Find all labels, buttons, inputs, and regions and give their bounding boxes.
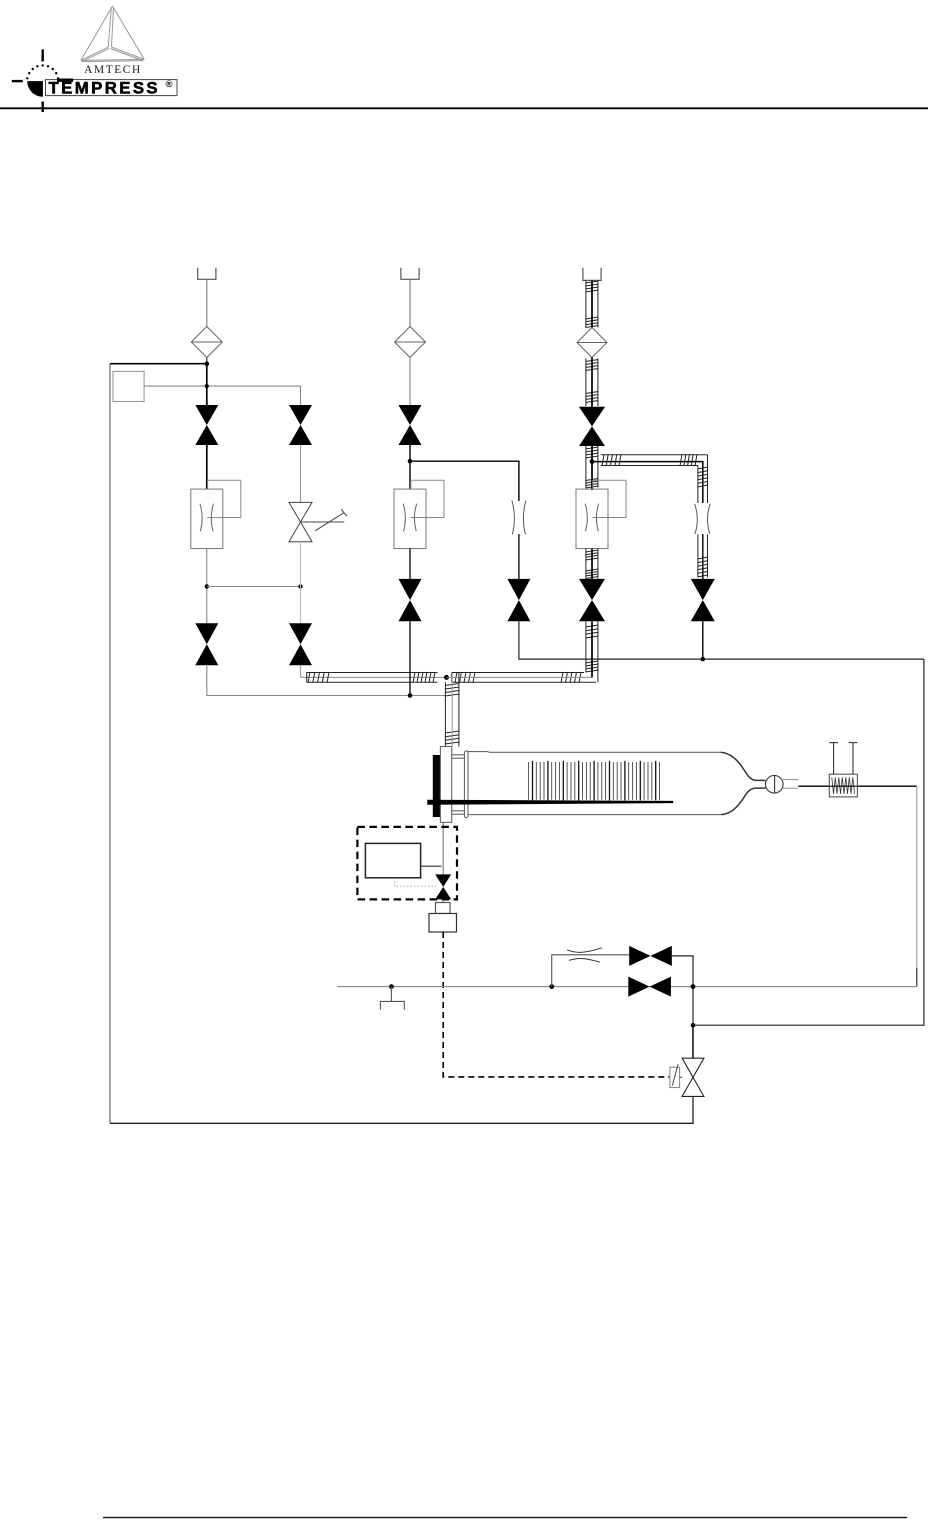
flex hose FH1 [585, 280, 598, 327]
furnace tube body [468, 752, 721, 815]
TEMPRESS wordmark box [46, 78, 178, 97]
restrictor R1 [512, 501, 526, 535]
valve V6 [579, 407, 605, 427]
node E [408, 693, 413, 698]
filter F3 [577, 328, 607, 358]
wire box B1 to line 2 [144, 386, 300, 405]
control signal dotted wire [395, 878, 437, 887]
wire V7 to node H [702, 621, 704, 659]
tube neck curves [721, 752, 766, 814]
wire M3 to valve V5b [409, 549, 411, 580]
node K [389, 984, 394, 989]
mass flow controller M1 [191, 480, 241, 548]
node I [691, 1023, 696, 1028]
boat hatch element [529, 761, 660, 801]
purge valve actuator [670, 1064, 682, 1087]
furnace door black flange [433, 755, 441, 817]
restrictor R2 [695, 504, 711, 534]
valve V3 [289, 405, 312, 425]
header rule [0, 107, 928, 109]
valve V10 [435, 874, 451, 887]
valve V7 [691, 579, 715, 600]
node C [205, 584, 209, 588]
wire F1 to node A [206, 358, 208, 364]
flex pipe P2 centerline [447, 676, 593, 678]
node H [701, 657, 706, 662]
filter F2 [395, 327, 426, 358]
spring-loaded scavenger fitting [829, 774, 857, 797]
wire V1 to MFC M1 [206, 445, 208, 489]
Tempress compass symbol [12, 49, 60, 112]
control signal dashed wire to purge valve [443, 932, 670, 1077]
filter F1 [191, 327, 222, 358]
svg-text:®: ® [166, 79, 173, 90]
wire node G to MFC M3 [409, 461, 411, 489]
node A [205, 361, 210, 366]
valve V1 [195, 405, 218, 425]
valve V8 [507, 579, 530, 600]
valve V2 [195, 623, 218, 644]
exhaust fitting large [429, 914, 457, 933]
gas inlet port 3 [401, 268, 419, 280]
wire scavenger main line [337, 986, 917, 988]
wire cross-connect line1 line2 [207, 586, 301, 588]
valve V4 [289, 623, 312, 644]
gas inlet port 1 [198, 268, 216, 280]
wire V5b to node E [409, 621, 411, 695]
exhaust line from ball joint [798, 785, 917, 787]
wire controller to valve V10 [421, 865, 442, 867]
gas inlet port 5 [583, 268, 601, 281]
valve V6b [579, 579, 605, 600]
exhaust fitting small [436, 903, 451, 914]
wire M1 down to node C [206, 549, 208, 624]
controller box B1 [113, 371, 144, 401]
node J [590, 459, 595, 464]
wire inlet 3 to filter F2 [409, 279, 411, 326]
flex hose FH2 [585, 359, 598, 407]
node D [298, 584, 302, 588]
flex hose FH3 [585, 446, 598, 488]
wire door to valve V10 [442, 822, 444, 875]
valve V5 [399, 405, 422, 425]
svg-text:TEMPRESS: TEMPRESS [49, 78, 161, 97]
wire V5 to node G [409, 445, 411, 461]
wire V3 to needle valve NV1 [300, 445, 302, 502]
Amtech tetrahedron logo [81, 6, 144, 62]
door seal lines [452, 755, 465, 814]
feed pipe P3 centerline [451, 677, 453, 746]
node B [205, 384, 209, 388]
wire V9 top [692, 1025, 694, 1058]
wire node G to bypass line 4 [410, 461, 519, 501]
furnace door plate [440, 747, 451, 823]
wire V10 to exhaust fitting [442, 899, 444, 902]
wire V9 bottom return [110, 1096, 693, 1123]
wire R1 to valve V8 [518, 534, 520, 579]
ball joint [766, 776, 784, 794]
flex hose FH5 [585, 621, 598, 682]
furnace feed pipe P3 [445, 673, 460, 747]
flex hose FH6 horizontal [601, 454, 708, 466]
wire R2 to valve V7 [702, 534, 704, 579]
wire V2 to vent header [207, 665, 446, 695]
wire left bus vertical [109, 364, 111, 1124]
flex pipe P1 walls [307, 672, 438, 683]
wire F2 to valve V5 [409, 358, 411, 407]
svg-text:AMTECH: AMTECH [84, 64, 142, 76]
wire V8 to exhaust bus [519, 621, 924, 659]
drain vent symbol [380, 987, 404, 1010]
wire hose FH6 centerline [592, 462, 703, 503]
purge valve V9 [682, 1058, 704, 1077]
ball joint outlet stubs [783, 780, 798, 789]
wire node A to valve V1 [206, 364, 208, 406]
restrictor R3 [567, 948, 602, 962]
wire bypass riser [552, 955, 630, 987]
wire VB1 to node M [672, 956, 693, 1025]
wire inlet 1 to filter F1 [206, 279, 208, 326]
flex pipe P2 walls [452, 672, 596, 683]
fitting supports [829, 743, 857, 775]
node L [549, 984, 554, 989]
pressure controller box [365, 843, 420, 877]
valve VB1 [629, 946, 650, 966]
wire V4 to process pipe [300, 665, 302, 677]
footer rule [103, 1517, 907, 1519]
valve VB2 [628, 977, 649, 997]
pressure controller enclosure (dashed) [357, 827, 457, 900]
node M [691, 984, 696, 989]
flex hose FH7 vertical [697, 455, 708, 578]
tube flange ring [464, 751, 468, 818]
wire exhaust right bus [916, 786, 918, 986]
node F process junction [444, 675, 449, 680]
wire node A to left bus [110, 363, 207, 365]
mass flow controller M2 [576, 480, 626, 548]
flex hose FH4 [585, 549, 598, 579]
wire NV1 down [300, 542, 302, 624]
wire right bus down [693, 659, 924, 1025]
flex pipe P1 centerline [301, 676, 447, 678]
needle valve NV1 [289, 502, 347, 541]
cantilever rod [427, 800, 673, 805]
mass flow controller M3 [394, 480, 444, 548]
valve V5b [399, 579, 422, 600]
node G [408, 459, 413, 464]
